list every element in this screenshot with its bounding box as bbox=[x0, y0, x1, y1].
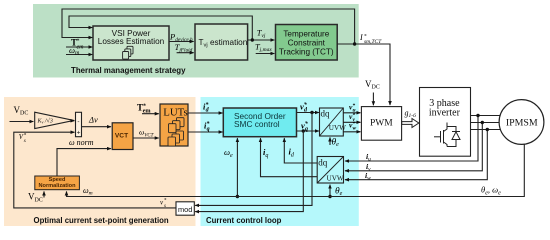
wire phase u inverter to motor bbox=[471, 115, 501, 117]
svg-text:Current control loop: Current control loop bbox=[206, 216, 282, 225]
svg-text:sm,TCT: sm,TCT bbox=[364, 39, 382, 45]
wire v*d SMC to dq/UVW bbox=[297, 112, 319, 114]
junction dot tap v bbox=[481, 121, 484, 124]
wire omega_vct VCT to LUTs bbox=[134, 137, 159, 139]
svg-text:I: I bbox=[359, 33, 363, 42]
junction dot tap u bbox=[476, 114, 479, 117]
open arrow PWM to inverter bbox=[402, 119, 419, 128]
wire omega_m input stub to VSI bbox=[66, 54, 92, 56]
wire v*w to PWM bbox=[343, 131, 360, 133]
junction dot theta_e bbox=[328, 195, 331, 198]
svg-text:Losses Estimation: Losses Estimation bbox=[98, 37, 165, 46]
wire V_DC into PWM bbox=[372, 93, 374, 106]
block PWM bbox=[361, 107, 401, 141]
block LUTs bbox=[160, 104, 188, 146]
wire omega_norm SpeedNorm to VCT bbox=[57, 149, 111, 176]
wire gain to summing block bbox=[73, 120, 74, 122]
block Second Order SMC control bbox=[223, 108, 296, 137]
wire i_d from lower dq/UVW to SMC bbox=[284, 138, 317, 163]
orange region: optimal current set-point generation bbox=[4, 97, 196, 226]
svg-text:Constraint: Constraint bbox=[288, 39, 326, 48]
svg-text:s: s bbox=[164, 204, 166, 209]
junction dot Tvj feedback bbox=[251, 38, 254, 41]
icon IGBT with diode bbox=[434, 123, 460, 147]
wire Tvj output to TCT bbox=[248, 39, 275, 41]
svg-text:dq: dq bbox=[321, 109, 331, 119]
icon pages in VSI block bbox=[123, 46, 133, 59]
junction dot omega_e bbox=[236, 195, 239, 198]
wire theta_e stub into upper dq/UVW bbox=[329, 138, 331, 146]
svg-text:IPMSM: IPMSM bbox=[506, 118, 538, 129]
wire i_v tap to lower dq/UVW bbox=[345, 123, 482, 171]
svg-text:s: s bbox=[24, 138, 26, 144]
wire T*em input stub to VSI bbox=[66, 46, 92, 48]
wire P_device,h VSI to Tvj estimation bbox=[169, 41, 194, 43]
svg-text:-: - bbox=[77, 119, 79, 126]
svg-text:Kv /√3: Kv /√3 bbox=[37, 118, 53, 125]
junction dot TCT output bbox=[353, 42, 356, 45]
wire LUTs i*q to SMC bbox=[188, 131, 223, 133]
wire theta_e into lower dq/UVW bbox=[329, 185, 331, 197]
wire omega_e up into SMC bbox=[236, 138, 238, 196]
svg-text:UVW: UVW bbox=[327, 175, 344, 183]
wire delta-v to VCT bbox=[82, 126, 111, 128]
block VSI Power Losses Estimation bbox=[93, 26, 169, 60]
wire LUTs i*d to SMC bbox=[188, 112, 223, 114]
svg-text:PWM: PWM bbox=[370, 119, 393, 129]
wire v*d down to mod bbox=[195, 113, 312, 206]
wire v*v to PWM bbox=[343, 121, 360, 123]
wire T_j,max stub to TCT bbox=[256, 53, 275, 55]
svg-text:Temperature: Temperature bbox=[283, 30, 329, 39]
wire phase w inverter to motor bbox=[471, 129, 501, 131]
svg-text:Thermal management strategy: Thermal management strategy bbox=[71, 66, 186, 75]
svg-text:+: + bbox=[77, 129, 81, 136]
svg-text:LUTs: LUTs bbox=[163, 107, 187, 119]
block Tvj estimation bbox=[195, 24, 248, 60]
wire outer feedback I*smTCT to VSI input bbox=[62, 9, 355, 44]
block Temperature Constraint Tracking TCT bbox=[276, 25, 338, 61]
wire i_u tap to lower dq/UVW bbox=[345, 116, 478, 162]
wire T_jFluid stub to Tvj estimation bbox=[177, 52, 194, 54]
icon pages in LUTs upper bbox=[169, 118, 185, 133]
svg-text:inverter: inverter bbox=[429, 107, 461, 118]
summing block bbox=[76, 112, 82, 136]
junction dot tap w bbox=[486, 128, 489, 131]
wire inner feedback Tvj to VSI input bbox=[69, 16, 252, 40]
motor IPMSM bbox=[499, 100, 544, 145]
wire phase v inverter to motor bbox=[471, 122, 500, 124]
wire v*u to PWM bbox=[343, 112, 360, 114]
svg-text:dq: dq bbox=[318, 158, 328, 168]
wire V_DC into Speed Normalization bbox=[43, 192, 45, 198]
cyan region: current control loop bbox=[201, 97, 359, 226]
wire i_q from lower dq/UVW to SMC bbox=[261, 138, 318, 177]
svg-text:mod: mod bbox=[178, 205, 192, 214]
svg-text:VCT: VCT bbox=[115, 133, 128, 140]
block 3 phase inverter bbox=[420, 88, 471, 157]
wire theta_e omega_e from motor to speed normalization bbox=[67, 144, 525, 197]
junction dot v*d bbox=[310, 111, 313, 114]
block Speed Normalization bbox=[35, 176, 80, 190]
wire TCT output I*smTCT to PWM bbox=[337, 44, 390, 105]
svg-text:Optimal current set-point gene: Optimal current set-point generation bbox=[34, 216, 169, 225]
block lower dq/UVW transform bbox=[317, 157, 344, 184]
wire T*em stub to LUTs bbox=[142, 113, 159, 115]
svg-text:UVW: UVW bbox=[329, 124, 346, 132]
block VCT bbox=[112, 123, 133, 150]
wire V_DC to gain triangle bbox=[10, 121, 34, 123]
svg-text:Δv: Δv bbox=[88, 115, 98, 125]
wire v*q SMC to dq/UVW bbox=[297, 130, 319, 132]
wire V*s into summing block bbox=[14, 132, 176, 208]
block mod bbox=[176, 202, 194, 215]
junction dot v*q bbox=[302, 129, 305, 132]
wire v*q down to mod bbox=[195, 131, 303, 212]
block upper dq/UVW transform bbox=[320, 108, 347, 136]
icon pages in LUTs lower bbox=[168, 131, 184, 146]
svg-text:Tracking (TCT): Tracking (TCT) bbox=[279, 48, 334, 57]
green region: thermal management strategy bbox=[33, 4, 359, 78]
svg-text:Normalization: Normalization bbox=[39, 183, 77, 189]
svg-text:ω norm: ω norm bbox=[69, 138, 94, 147]
svg-text:SMC control: SMC control bbox=[234, 119, 280, 129]
gain triangle Kv/sqrt3 bbox=[35, 112, 74, 128]
wire i_w tap to lower dq/UVW bbox=[345, 130, 487, 180]
